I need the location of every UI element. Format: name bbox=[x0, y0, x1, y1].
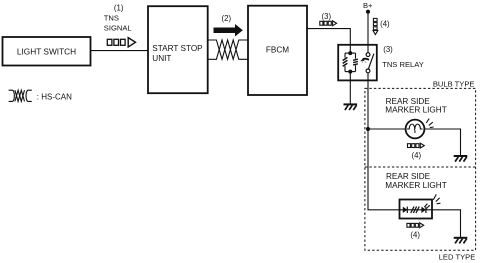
ground (bulb) bbox=[454, 156, 468, 162]
svg-text:REAR SIDE: REAR SIDE bbox=[386, 172, 431, 181]
relay coil node dots bbox=[348, 51, 352, 55]
svg-text:LIGHT SWITCH: LIGHT SWITCH bbox=[17, 47, 76, 57]
wire relay switch down to junction bbox=[367, 81, 369, 129]
start stop unit box bbox=[148, 6, 208, 93]
signal symbol (3): three squares and open arrow bbox=[320, 21, 337, 26]
svg-text:BULB TYPE: BULB TYPE bbox=[433, 80, 475, 89]
wire LED to ground bbox=[432, 210, 461, 238]
wire relay coil to ground bbox=[349, 81, 351, 104]
label rear side marker light (bulb) bbox=[385, 97, 446, 115]
junction node bbox=[366, 127, 370, 131]
relay switch contacts bbox=[366, 45, 374, 81]
HS-CAN twisted pair wire (top) bbox=[208, 40, 248, 59]
svg-text:(4): (4) bbox=[410, 231, 420, 240]
bulb light rays bbox=[426, 119, 433, 128]
svg-text:MARKER LIGHT: MARKER LIGHT bbox=[385, 181, 446, 190]
diode D1 bbox=[403, 207, 408, 213]
ground (LED) bbox=[454, 238, 468, 244]
signal symbol (4) vertical: three squares and open down arrow bbox=[373, 18, 378, 34]
dashed divider LED TYPE section bbox=[365, 166, 476, 168]
svg-text:(2): (2) bbox=[222, 14, 232, 23]
B+ node dot bbox=[366, 10, 370, 14]
svg-text:(3): (3) bbox=[322, 12, 332, 21]
svg-text:: HS-CAN: : HS-CAN bbox=[37, 92, 72, 101]
signal symbol (4) under bulb bbox=[408, 143, 425, 148]
svg-text:SIGNAL: SIGNAL bbox=[104, 24, 132, 33]
wire bulb to ground bbox=[424, 129, 460, 156]
light switch box bbox=[3, 37, 91, 66]
HS-CAN twisted pair wire (bottom) bbox=[208, 40, 248, 59]
svg-text:LED TYPE: LED TYPE bbox=[439, 252, 476, 261]
label TNS SIGNAL bbox=[104, 14, 132, 33]
svg-text:UNIT: UNIT bbox=[152, 54, 171, 63]
relay coil (diagonal winding strokes) bbox=[343, 57, 348, 66]
TNS relay box bbox=[338, 45, 377, 81]
resistor (diagonal strokes) bbox=[411, 207, 419, 214]
svg-text:TNS RELAY: TNS RELAY bbox=[382, 60, 424, 69]
svg-text:FBCM: FBCM bbox=[266, 46, 289, 55]
label rear side marker light (LED) bbox=[385, 172, 446, 190]
ground (relay coil) bbox=[344, 104, 358, 110]
TNS signal symbol (1): three squares and open arrow bbox=[107, 38, 135, 47]
wire B+ to relay bbox=[367, 12, 369, 45]
thick signal arrow (2) bbox=[214, 24, 243, 37]
svg-text:START STOP: START STOP bbox=[152, 44, 203, 53]
LED D2 bbox=[421, 203, 430, 213]
wire FBCM to TNS relay bbox=[307, 29, 350, 45]
bulb lamp symbol bbox=[406, 120, 425, 139]
svg-text:MARKER LIGHT: MARKER LIGHT bbox=[385, 106, 446, 115]
relay resistor (winding strokes) bbox=[353, 59, 358, 65]
svg-text:(3): (3) bbox=[383, 45, 393, 54]
LED module box bbox=[400, 200, 433, 219]
HS-CAN legend symbol bbox=[9, 90, 32, 101]
svg-text:(4): (4) bbox=[412, 151, 422, 160]
svg-text:B+: B+ bbox=[363, 1, 373, 10]
wire through LED module bbox=[400, 209, 433, 211]
wire junction to bulb bbox=[368, 128, 406, 130]
svg-text:TNS: TNS bbox=[104, 14, 119, 23]
svg-text:(4): (4) bbox=[380, 20, 390, 29]
LED light rays bbox=[433, 194, 440, 203]
svg-text:(1): (1) bbox=[114, 4, 124, 13]
wire junction down to LED circuit bbox=[368, 129, 400, 210]
signal symbol (4) under LED bbox=[407, 223, 424, 228]
dashed enclosure BULB TYPE section bbox=[365, 88, 476, 250]
wire light switch to start stop unit bbox=[91, 50, 149, 52]
relay coil branch wires bbox=[345, 45, 356, 81]
FBCM box bbox=[248, 6, 307, 95]
relay actuation arrow bbox=[360, 58, 369, 62]
